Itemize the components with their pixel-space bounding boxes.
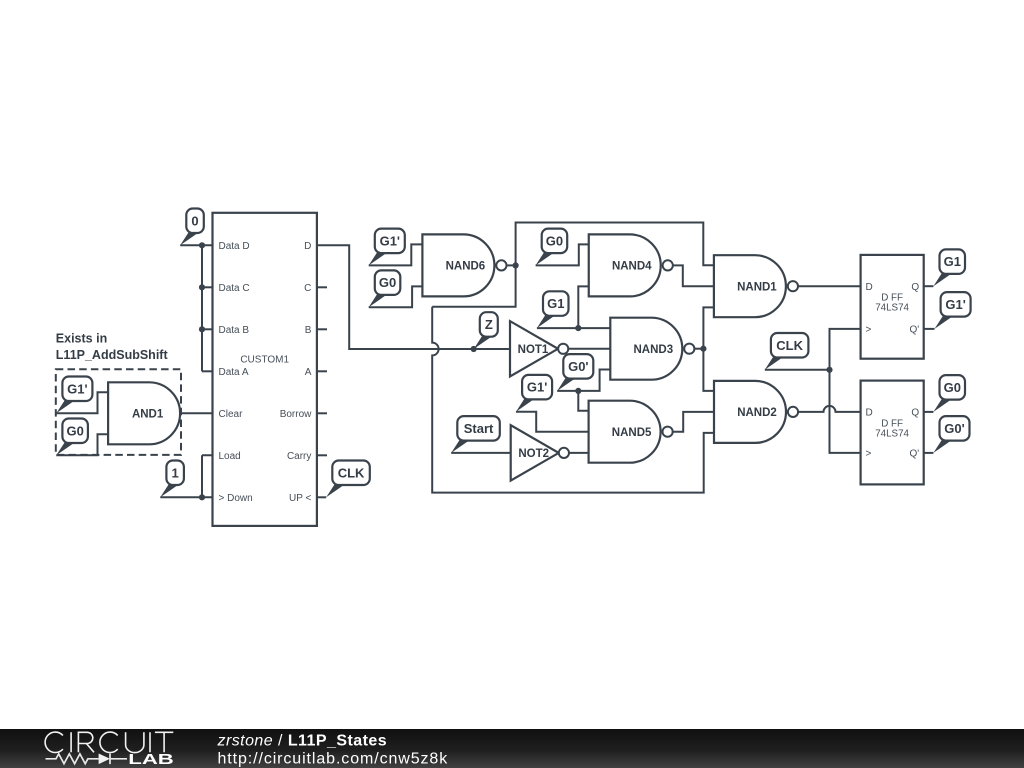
junction Data B bbox=[199, 326, 205, 332]
stub pin B bbox=[317, 328, 327, 330]
flag G1' at NAND5 bbox=[516, 375, 552, 412]
svg-text:G0: G0 bbox=[944, 380, 961, 395]
flag CLK at flip-flops bbox=[765, 333, 809, 370]
svg-text:B: B bbox=[305, 325, 312, 336]
inverter NOT2 bbox=[511, 425, 569, 480]
svg-text:Z: Z bbox=[485, 317, 493, 332]
stub pin Borrow bbox=[317, 412, 327, 414]
NAND gate NAND3 bbox=[610, 318, 694, 380]
svg-text:G0: G0 bbox=[66, 423, 83, 438]
svg-text:http://circuitlab.com/cnw5z8k: http://circuitlab.com/cnw5z8k bbox=[218, 751, 449, 768]
wire CLK to FF2 clock bbox=[830, 370, 861, 453]
junction NAND6 output bbox=[513, 262, 519, 268]
wire G0 to AND1 input 2 bbox=[56, 434, 108, 455]
flag G1 at FF1 Q bbox=[933, 249, 965, 286]
svg-text:G0': G0' bbox=[568, 359, 588, 374]
junction Down pin bbox=[199, 494, 205, 500]
flag CLK at UP pin bbox=[326, 461, 370, 498]
svg-text:Borrow: Borrow bbox=[280, 409, 312, 420]
svg-text:D: D bbox=[866, 282, 873, 293]
flag 1 at Down pin bbox=[160, 461, 184, 498]
flag G0 at NAND4 bbox=[536, 229, 568, 266]
svg-text:Q': Q' bbox=[910, 325, 920, 336]
svg-text:>: > bbox=[866, 449, 872, 460]
counter block CUSTOM1 bbox=[213, 213, 317, 526]
svg-text:C: C bbox=[304, 283, 311, 294]
flag 0 at data bus bbox=[180, 209, 204, 246]
svg-text:Q': Q' bbox=[910, 449, 920, 460]
junction CLK bbox=[826, 367, 832, 373]
svg-text:Clear: Clear bbox=[219, 409, 244, 420]
wire FF1 Q' to G1' bbox=[924, 328, 935, 330]
wire NAND2 output to FF2 D bbox=[798, 406, 861, 412]
svg-text:Carry: Carry bbox=[287, 451, 311, 462]
AND gate AND1 bbox=[108, 382, 180, 444]
svg-text:> Down: > Down bbox=[219, 493, 253, 504]
svg-text:G1: G1 bbox=[547, 296, 564, 311]
stub pin A bbox=[317, 370, 327, 372]
wire NAND6 out to NAND2 input 3 bbox=[432, 265, 725, 492]
wire Start to NOT2 input bbox=[451, 452, 511, 454]
wire NAND4 output to NAND1 input 2 bbox=[673, 265, 725, 286]
wire data bus vertical bbox=[201, 245, 203, 371]
wire G0 to NAND6 input 2 bbox=[369, 286, 423, 307]
D flip-flop U2 74LS74 bbox=[861, 381, 924, 485]
wire 0-flag to Data D bbox=[180, 244, 212, 246]
wire NAND3 output bbox=[694, 348, 703, 350]
wire bus to Data C bbox=[202, 286, 213, 288]
flag G0' at NAND3 bbox=[557, 354, 593, 391]
NAND gate NAND6 bbox=[422, 234, 506, 296]
wire G0' junction to NAND5 input 1 bbox=[578, 391, 588, 411]
svg-text:zrstone / L11P_States: zrstone / L11P_States bbox=[217, 733, 388, 750]
svg-text:AND1: AND1 bbox=[132, 408, 164, 420]
wire AND1 output to Clear bbox=[180, 412, 212, 414]
flag G1' at NAND6 bbox=[369, 229, 405, 266]
svg-text:Q: Q bbox=[911, 408, 919, 419]
svg-text:G1': G1' bbox=[527, 380, 547, 395]
flag G1' at AND1 bbox=[56, 377, 92, 414]
svg-text:Data A: Data A bbox=[219, 367, 249, 378]
wire FF2 Q' to G0' bbox=[924, 452, 934, 454]
stub pin Carry bbox=[317, 454, 327, 456]
svg-text:Q: Q bbox=[911, 282, 919, 293]
svg-text:NAND6: NAND6 bbox=[446, 261, 486, 273]
wire D output to NOT1 input bbox=[317, 245, 510, 349]
svg-text:D: D bbox=[304, 241, 311, 252]
wire FF2 Q to G0 bbox=[924, 411, 934, 413]
junction NAND3 output bbox=[700, 346, 706, 352]
junction Z node bbox=[471, 346, 477, 352]
svg-text:L11P_AddSubShift: L11P_AddSubShift bbox=[56, 348, 169, 362]
wire G1 junction to NAND4 input 2 bbox=[578, 286, 588, 328]
wire G1' to NAND5 input 2 bbox=[516, 412, 600, 432]
svg-text:G0: G0 bbox=[379, 275, 396, 290]
svg-text:1: 1 bbox=[172, 465, 179, 480]
svg-text:Load: Load bbox=[219, 451, 241, 462]
wire NAND6 out to NAND1 input 1 bbox=[516, 223, 714, 266]
junction G1 node bbox=[575, 325, 581, 331]
NAND gate NAND5 bbox=[589, 401, 673, 463]
svg-text:74LS74: 74LS74 bbox=[875, 303, 909, 314]
svg-text:G1': G1' bbox=[67, 381, 87, 396]
flag G0 at FF2 Q bbox=[933, 375, 965, 412]
wire FF1 Q to G1 bbox=[924, 285, 934, 287]
svg-text:NAND3: NAND3 bbox=[633, 344, 673, 356]
svg-text:LAB: LAB bbox=[128, 751, 174, 768]
svg-text:Data B: Data B bbox=[219, 325, 250, 336]
flag Z flag bbox=[474, 312, 498, 349]
wire G0 to NAND4 input 1 bbox=[536, 244, 589, 265]
wire bus to Data A bbox=[202, 370, 213, 372]
wire NAND5 output to NAND2 input 2 bbox=[673, 412, 725, 432]
flag G0' at FF2 Q' bbox=[933, 416, 969, 453]
svg-text:74LS74: 74LS74 bbox=[875, 428, 909, 439]
wire NOT2 output to NAND5 input 3 bbox=[569, 452, 588, 454]
svg-text:NAND4: NAND4 bbox=[612, 261, 652, 273]
svg-text:Exists in: Exists in bbox=[56, 331, 107, 345]
svg-text:Data D: Data D bbox=[219, 241, 250, 252]
svg-text:Data C: Data C bbox=[219, 283, 250, 294]
wire bus to Data B bbox=[202, 328, 213, 330]
wire G1' to AND1 input 1 bbox=[56, 392, 108, 413]
svg-text:G0': G0' bbox=[944, 421, 964, 436]
dashed boundary box bbox=[56, 369, 181, 455]
svg-text:UP <: UP < bbox=[289, 493, 311, 504]
svg-text:G1': G1' bbox=[380, 233, 400, 248]
wire CLK to FF1 clock bbox=[830, 329, 861, 370]
inverter NOT1 bbox=[510, 321, 568, 376]
footer banner bbox=[0, 729, 1024, 768]
wire 1-flag to Down pin bbox=[160, 496, 212, 498]
svg-text:NOT1: NOT1 bbox=[518, 344, 549, 356]
svg-text:NAND5: NAND5 bbox=[612, 427, 652, 439]
svg-text:A: A bbox=[305, 367, 312, 378]
svg-text:G0: G0 bbox=[546, 233, 563, 248]
NAND gate NAND2 bbox=[714, 381, 798, 443]
junction Data D bbox=[199, 242, 205, 248]
svg-text:0: 0 bbox=[191, 213, 198, 228]
svg-text:>: > bbox=[866, 325, 872, 336]
junction Data C bbox=[199, 284, 205, 290]
svg-text:G1': G1' bbox=[945, 297, 965, 312]
svg-text:CLK: CLK bbox=[338, 465, 365, 480]
flag G0 at NAND6 bbox=[369, 270, 401, 307]
NAND gate NAND1 bbox=[714, 255, 798, 317]
svg-text:NOT2: NOT2 bbox=[518, 448, 549, 460]
svg-text:Start: Start bbox=[464, 421, 494, 436]
wire NAND1 output to FF1 D bbox=[798, 285, 861, 287]
flag G1 at NAND3 bbox=[537, 291, 569, 328]
wire G1 to NAND3 input 1 bbox=[537, 327, 610, 329]
wire CLK flag to clock junction bbox=[765, 369, 830, 371]
stub pin C bbox=[317, 286, 327, 288]
wire NOT1 output to NAND3 input 2 bbox=[569, 348, 622, 350]
wire G0' to NAND3 input 3 bbox=[557, 370, 610, 391]
svg-text:D: D bbox=[866, 408, 873, 419]
flag G0 at AND1 bbox=[56, 419, 88, 456]
NAND gate NAND4 bbox=[589, 234, 673, 296]
wire NAND3 out to NAND2 input 1 bbox=[703, 349, 725, 391]
svg-text:G1: G1 bbox=[944, 254, 961, 269]
D flip-flop U1 74LS74 bbox=[861, 255, 924, 359]
wire NAND3 out to NAND1 input 3 bbox=[703, 307, 714, 348]
wire NAND6 output bbox=[507, 264, 516, 266]
svg-text:NAND1: NAND1 bbox=[737, 281, 777, 293]
svg-text:CLK: CLK bbox=[776, 338, 803, 353]
svg-text:CUSTOM1: CUSTOM1 bbox=[240, 355, 289, 366]
junction G0' node bbox=[575, 388, 581, 394]
flag Start flag bbox=[451, 416, 500, 453]
svg-text:NAND2: NAND2 bbox=[737, 407, 777, 419]
flag G1' at FF1 Q' bbox=[935, 292, 971, 329]
wire Down to Load vertical bbox=[202, 455, 213, 497]
wire G1' to NAND6 input 1 bbox=[369, 244, 423, 265]
stub pin UP bbox=[317, 496, 326, 498]
